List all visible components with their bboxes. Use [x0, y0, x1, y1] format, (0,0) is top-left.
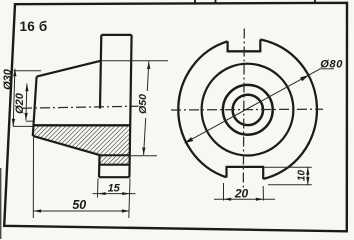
vertical centerline of front view	[243, 29, 244, 190]
top slot: left wall	[227, 41, 229, 51]
circle O50	[202, 64, 294, 156]
dimension O50: extension line bottom	[131, 155, 157, 157]
dimension 50: extension line right	[129, 179, 130, 219]
svg-text:Ø80: Ø80	[320, 59, 343, 71]
dimension O80: diameter leader line	[185, 69, 321, 143]
dimension O80: arrow at lower-left rim	[185, 137, 194, 143]
dimension O50: dimension line upper part	[147, 61, 149, 91]
dimension 50: arrow left	[34, 209, 42, 212]
dimension O50: dimension line lower part	[144, 118, 146, 155]
svg-text:10: 10	[296, 170, 307, 181]
dimension 10: arrow down	[306, 177, 309, 185]
flange left edge (upper half)	[100, 35, 101, 109]
flange face junction line at O50 (section)	[99, 154, 130, 156]
dimension 50: dimension line	[34, 210, 130, 212]
horizontal centerline of front view	[171, 108, 323, 111]
dimension O50: arrow up	[147, 62, 150, 70]
hatch fill of section	[33, 126, 130, 163]
dimension O50: extension line top	[101, 60, 168, 62]
dimension 20: extension line left	[223, 183, 225, 201]
dimension 15: arrow left	[98, 192, 106, 195]
dimension 10: dimension line	[307, 167, 309, 185]
svg-text:Ø50: Ø50	[137, 94, 149, 114]
dimension 20: extension line right	[262, 186, 264, 201]
dimension O80: horizontal shelf under label	[320, 68, 334, 70]
circle O20	[233, 95, 263, 125]
dimension O50: arrow down	[142, 148, 145, 155]
dimension 10: extension line bottom	[268, 184, 312, 186]
dimension O30: arrow up	[13, 69, 16, 77]
dimension O80: arrow at upper-right rim	[300, 75, 309, 81]
top slot: right wall	[259, 40, 261, 52]
dimension 20: arrow left	[224, 198, 232, 201]
svg-text:15: 15	[108, 182, 121, 194]
dimension O30: extension line top	[14, 70, 42, 72]
flange right edge	[129, 35, 131, 178]
part outline: left end face (vertical edge)	[33, 77, 37, 136]
flange left edge (lower section part)	[98, 155, 101, 177]
bore wall line (section, below axis)	[33, 124, 131, 126]
dimension 10: extension line top (slot floor extended)	[265, 166, 312, 168]
svg-text:Ø30: Ø30	[2, 68, 14, 90]
dimension O30: arrow down	[12, 119, 15, 126]
svg-text:Ø20: Ø20	[14, 92, 26, 114]
dimension O20: extension line bottom	[26, 120, 33, 122]
flange bottom edge (rim seen through slot)	[99, 176, 130, 178]
dimension O20: dimension line	[26, 84, 27, 121]
tick marks above top frame (cropped print from row above)	[195, 0, 315, 5]
flange top edge	[101, 34, 131, 36]
svg-text:50: 50	[72, 198, 86, 212]
dimension 10: arrow up	[306, 167, 309, 175]
bottom slot: left wall	[225, 167, 227, 177]
dimension 15: arrow right	[122, 192, 130, 195]
dimension O20: arrow down	[25, 113, 28, 120]
dimension 20: dimension line	[214, 198, 275, 200]
dimension 50: arrow right	[122, 209, 130, 212]
bottom slot: right wall	[262, 167, 264, 179]
dimension 15: dimension line	[93, 193, 136, 195]
dimension 50: extension line left	[32, 138, 34, 219]
centerline (axis) of left view	[22, 106, 138, 108]
svg-text:20: 20	[234, 186, 249, 200]
dimension O20: arrow up	[25, 84, 28, 92]
outer circle O80 with slot gaps	[178, 40, 317, 179]
slot floor line in flange (section)	[99, 164, 130, 166]
svg-text:16 б: 16 б	[20, 19, 48, 34]
dimension 20: arrow right	[256, 198, 263, 201]
circle O30	[223, 85, 273, 135]
top slot: floor	[227, 50, 262, 52]
bottom conical edge (section)	[33, 136, 99, 155]
dimension O30: extension line bottom (to bore line)	[13, 125, 33, 127]
part outline: top conical edge	[37, 61, 101, 77]
dark streak at left page edge	[0, 168, 2, 239]
dimension 15: extension line left	[97, 179, 100, 198]
bottom slot: floor	[226, 166, 265, 168]
dimension O30: dimension line	[13, 69, 15, 127]
